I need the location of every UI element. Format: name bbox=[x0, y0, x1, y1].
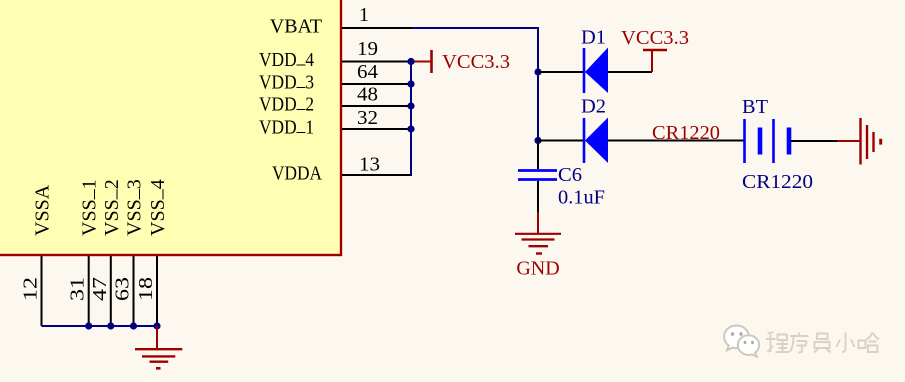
svg-text:BT: BT bbox=[742, 96, 768, 118]
svg-text:47: 47 bbox=[89, 277, 111, 301]
IC U1 (MCU block, cropped at top-left) bbox=[0, 0, 341, 255]
junction at VDD_4 bbox=[407, 58, 414, 65]
svg-text:1: 1 bbox=[359, 4, 369, 26]
svg-text:13: 13 bbox=[359, 154, 380, 176]
pin 13 stub (VDDA) bbox=[342, 174, 412, 176]
pin 12 stub (VSSA) bbox=[41, 256, 43, 326]
svg-text:VDD_2: VDD_2 bbox=[259, 91, 314, 116]
svg-text:GND: GND bbox=[516, 258, 559, 280]
junction at D1 anode bbox=[534, 68, 541, 75]
wire VBAT net bbox=[412, 28, 538, 141]
svg-text:63: 63 bbox=[112, 277, 134, 301]
svg-text:VDD_3: VDD_3 bbox=[259, 69, 314, 94]
svg-text:D1: D1 bbox=[581, 27, 606, 49]
pin 48 stub (VDD_2) bbox=[342, 105, 411, 107]
svg-text:32: 32 bbox=[357, 107, 378, 129]
svg-text:VSSA: VSSA bbox=[32, 184, 54, 236]
svg-text:0.1uF: 0.1uF bbox=[558, 187, 605, 209]
svg-text:D2: D2 bbox=[581, 96, 606, 118]
diode D2 bbox=[584, 118, 608, 164]
junction VSS_2 bbox=[107, 322, 114, 329]
earth ground (bottom) bbox=[135, 326, 182, 368]
junction VSS_1 bbox=[85, 322, 92, 329]
svg-text:18: 18 bbox=[135, 277, 157, 301]
pin 1 stub (VBAT) bbox=[342, 27, 412, 29]
pin 47 stub (VSS_2) bbox=[110, 256, 112, 326]
pin 31 stub (VSS_1) bbox=[88, 256, 90, 326]
wire D1 cathode to VCC3.3 bbox=[608, 71, 652, 73]
power port GND bbox=[515, 212, 561, 280]
pin 19 stub (VDD_4) bbox=[342, 61, 411, 63]
junction at VDD_1 bbox=[407, 125, 414, 132]
watermark icon (chat bubbles) bbox=[724, 326, 759, 357]
watermark text 程序员小哈 (drawn strokes) bbox=[766, 332, 879, 353]
power port VCC3.3 (bar, at VDD rail) bbox=[411, 50, 510, 73]
earth ground (right) bbox=[837, 118, 881, 165]
svg-text:CR1220: CR1220 bbox=[652, 122, 720, 144]
svg-text:VSS_1: VSS_1 bbox=[76, 179, 101, 236]
wire to D2 bbox=[538, 140, 584, 142]
junction at D2 anode / C6 bbox=[534, 137, 541, 144]
pin 63 stub (VSS_3) bbox=[133, 256, 135, 326]
svg-text:31: 31 bbox=[67, 277, 89, 301]
svg-text:VDD_1: VDD_1 bbox=[259, 114, 314, 139]
svg-text:VDD_4: VDD_4 bbox=[259, 46, 314, 71]
junction at VDD_2 bbox=[407, 102, 414, 109]
svg-text:VDDA: VDDA bbox=[272, 163, 322, 185]
svg-text:64: 64 bbox=[357, 61, 378, 83]
svg-text:VSS_4: VSS_4 bbox=[144, 179, 169, 236]
svg-text:VSS_2: VSS_2 bbox=[98, 179, 123, 236]
svg-text:C6: C6 bbox=[558, 164, 582, 186]
wire VDD rail vertical bbox=[410, 62, 412, 176]
svg-text:48: 48 bbox=[357, 84, 378, 106]
svg-text:VCC3.3: VCC3.3 bbox=[621, 27, 689, 49]
wire D2 cathode to battery bbox=[608, 140, 744, 142]
svg-text:VSS_3: VSS_3 bbox=[121, 179, 146, 236]
svg-text:19: 19 bbox=[357, 38, 378, 60]
capacitor C6 bbox=[518, 141, 557, 213]
wire to D1 bbox=[538, 71, 584, 73]
battery BT bbox=[745, 119, 790, 163]
junction at VDD_3 bbox=[407, 80, 414, 87]
junction VSS_3 bbox=[130, 322, 137, 329]
svg-text:12: 12 bbox=[20, 277, 42, 301]
pin 32 stub (VDD_1) bbox=[342, 128, 411, 130]
power port VCC3.3 (bar, at D1) bbox=[621, 27, 689, 72]
wire VSS bus bbox=[42, 325, 158, 327]
svg-text:VCC3.3: VCC3.3 bbox=[442, 51, 510, 73]
diode D1 bbox=[584, 48, 608, 94]
junction VSS_4 bbox=[153, 322, 160, 329]
pin 18 stub (VSS_4) bbox=[156, 256, 158, 326]
wire battery to earth bbox=[791, 140, 837, 142]
svg-text:VBAT: VBAT bbox=[270, 16, 322, 38]
pin 64 stub (VDD_3) bbox=[342, 83, 411, 85]
svg-text:CR1220: CR1220 bbox=[742, 171, 813, 193]
